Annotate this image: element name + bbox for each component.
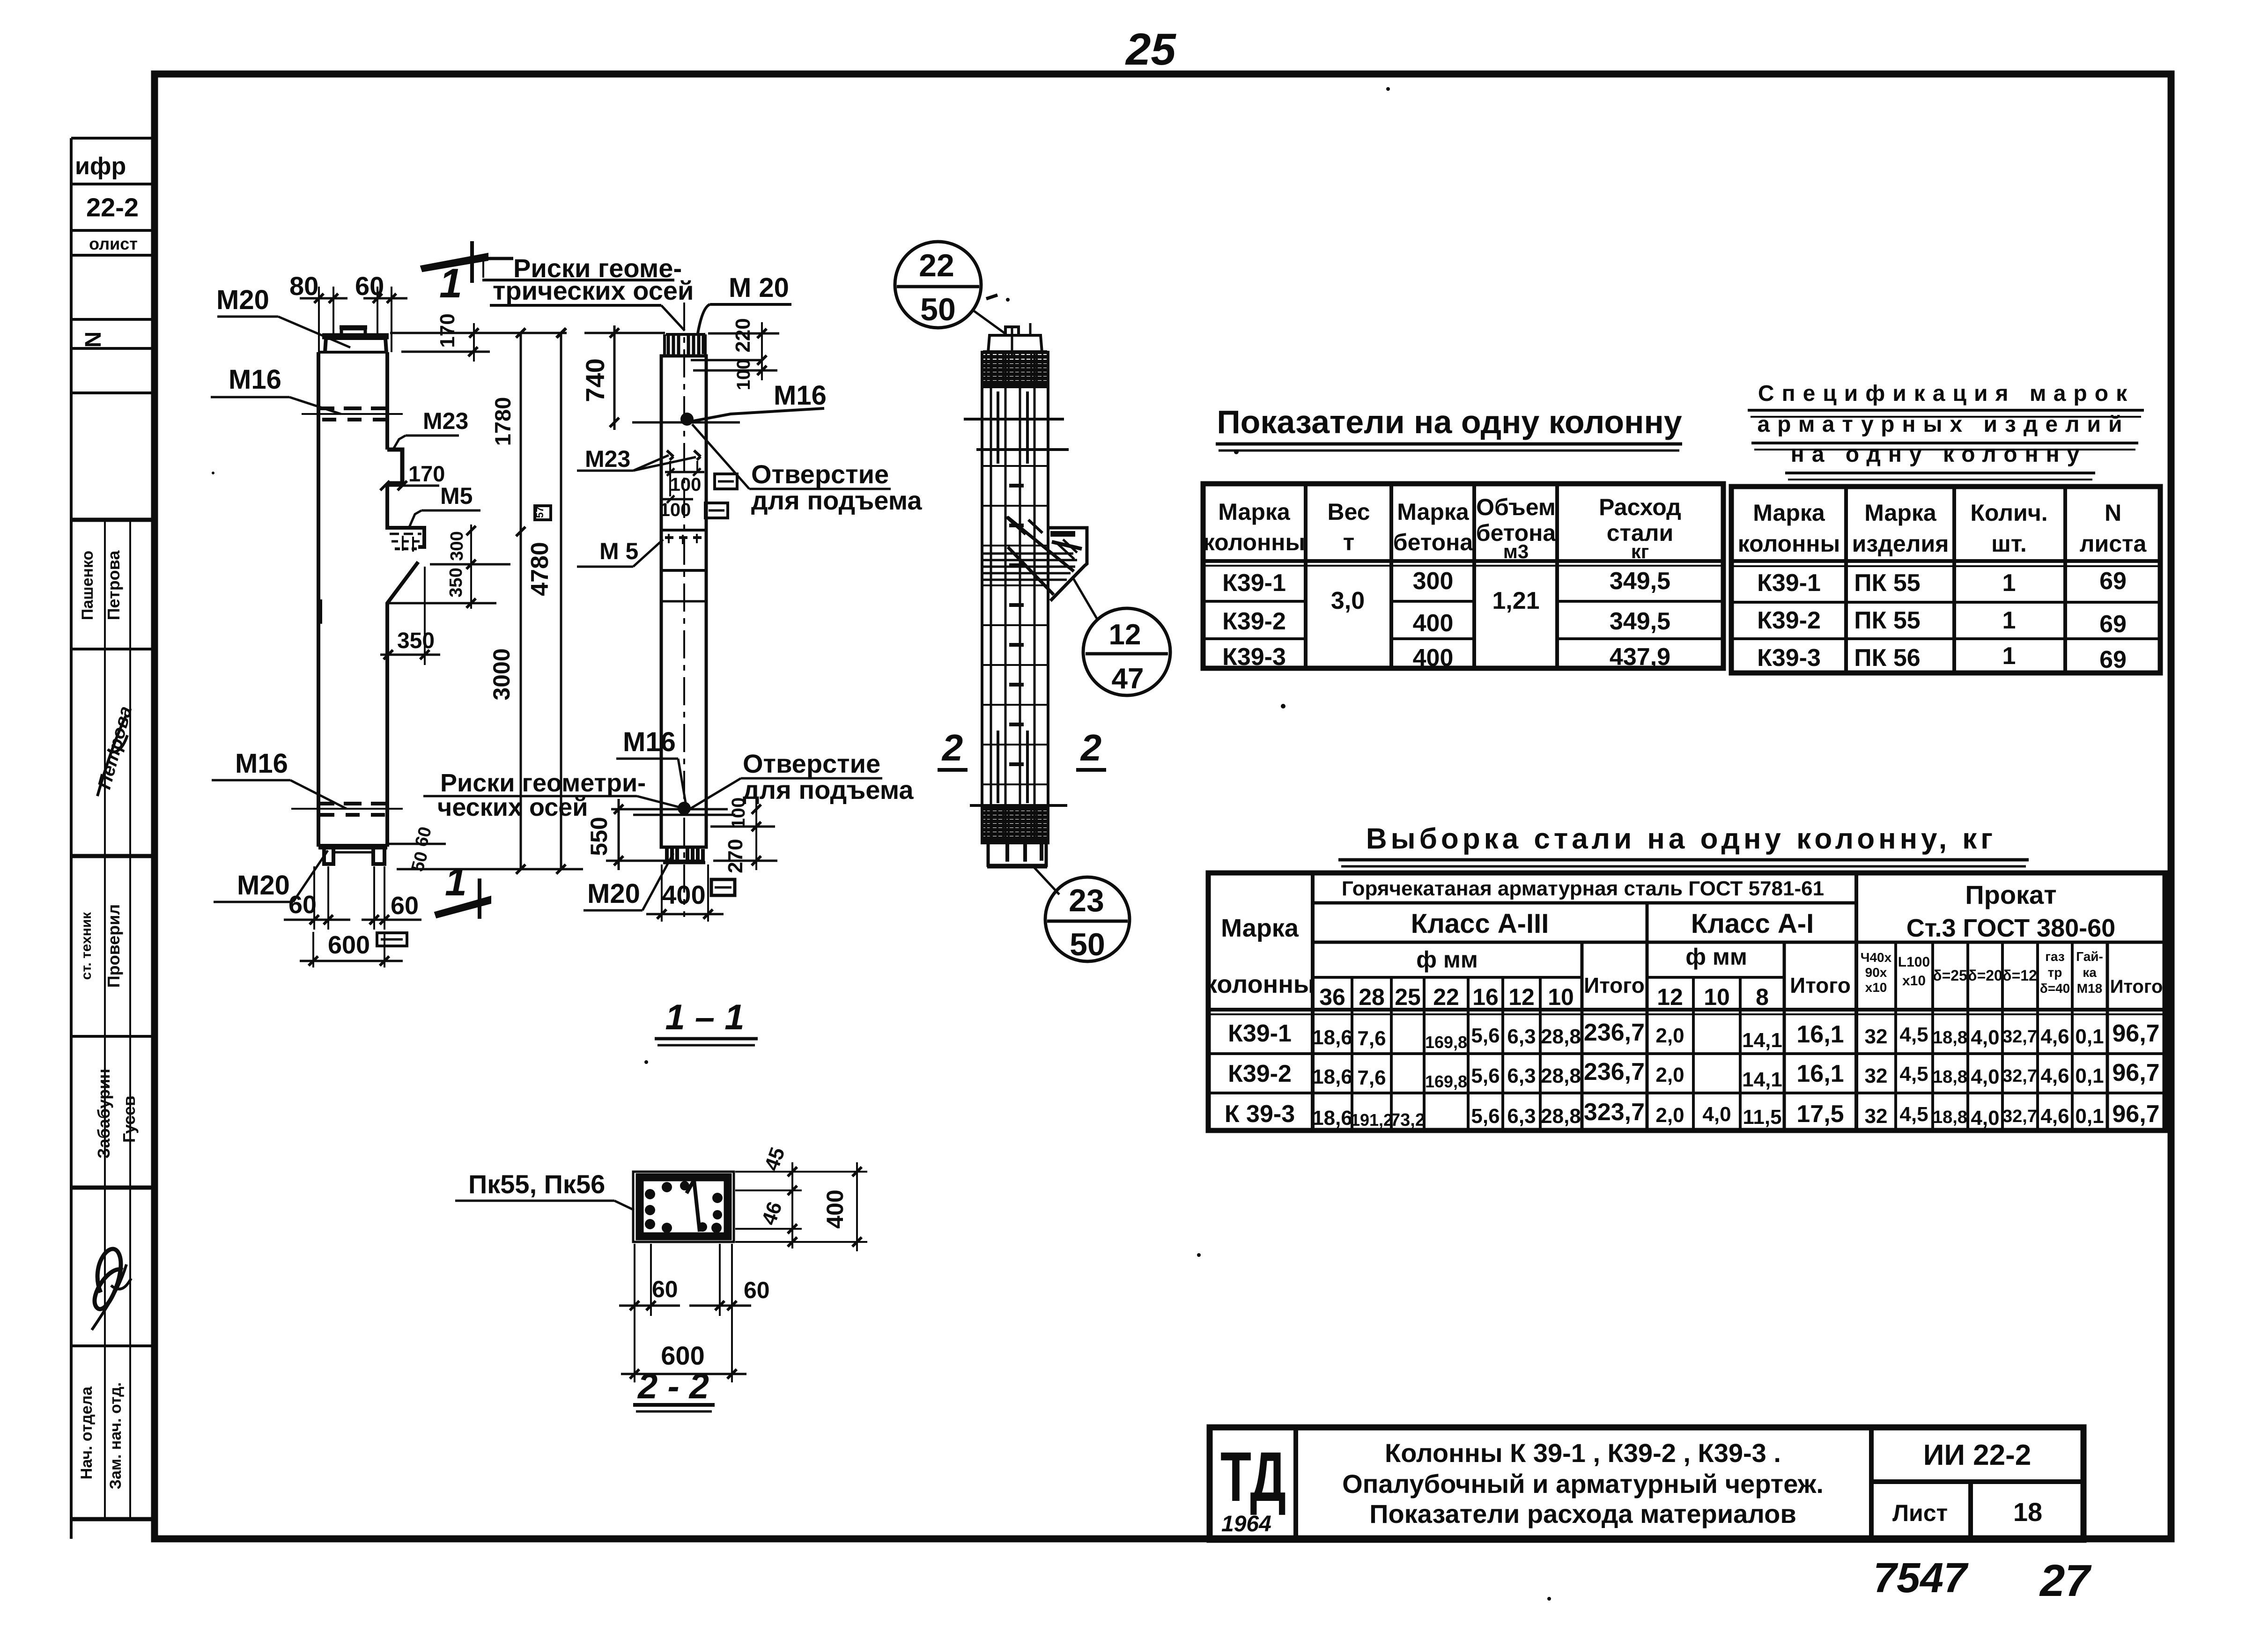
column body (661, 334, 706, 847)
axis dash marks upper (riski) (302, 408, 403, 420)
svg-text:4,6: 4,6 (2040, 1105, 2069, 1128)
svg-text:400: 400 (1413, 610, 1454, 637)
svg-text:14,1: 14,1 (1742, 1029, 1782, 1052)
svg-text:300: 300 (447, 531, 467, 561)
dim 170 at M23 tab (380, 481, 439, 490)
svg-text:К39-3: К39-3 (1222, 643, 1286, 671)
svg-text:69: 69 (2099, 611, 2127, 638)
svg-text:ПК 56: ПК 56 (1854, 644, 1920, 672)
label M5 view1 (408, 483, 480, 529)
svg-text:0,1: 0,1 (2075, 1064, 2104, 1087)
svg-text:349,5: 349,5 (1610, 568, 1670, 595)
svg-text:236,7: 236,7 (1584, 1058, 1645, 1086)
svg-text:δ=12: δ=12 (2002, 967, 2037, 984)
svg-text:100: 100 (660, 500, 691, 520)
rebar dots in section (645, 1181, 723, 1233)
label M23 view1 (392, 408, 468, 450)
svg-text:18,6: 18,6 (1312, 1026, 1352, 1049)
svg-text:27: 27 (2039, 1556, 2092, 1606)
svg-text:60: 60 (288, 891, 317, 919)
svg-text:349,5: 349,5 (1610, 608, 1670, 635)
lifting hole bottom (633, 802, 735, 815)
svg-text:Гусев: Гусев (119, 1096, 139, 1143)
svg-text:0,1: 0,1 (2075, 1025, 2104, 1048)
svg-text:М18: М18 (2077, 981, 2102, 996)
svg-text:δ=25: δ=25 (1933, 967, 1967, 984)
svg-text:2 - 2: 2 - 2 (637, 1366, 709, 1406)
svg-text:32: 32 (1865, 1025, 1888, 1048)
svg-text:ф мм: ф мм (1685, 944, 1747, 970)
svg-text:Лист: Лист (1892, 1500, 1948, 1526)
label Pk55 Pk56 (455, 1169, 634, 1210)
label M16 top view2 (688, 380, 827, 422)
svg-text:23: 23 (1069, 883, 1104, 918)
svg-text:изделия: изделия (1852, 531, 1949, 557)
svg-text:4,0: 4,0 (1971, 1107, 1999, 1130)
svg-text:170: 170 (436, 313, 459, 347)
svg-text:шт.: шт. (1991, 531, 2027, 557)
svg-text:18,8: 18,8 (1933, 1108, 1967, 1127)
svg-text:4780: 4780 (526, 542, 554, 596)
text riski geom bottom (423, 769, 680, 821)
svg-text:600: 600 (661, 1341, 704, 1370)
label M16 bottom view2 (616, 727, 686, 803)
svg-text:60: 60 (355, 271, 384, 301)
svg-text:550: 550 (586, 817, 612, 856)
svg-text:16: 16 (1472, 984, 1499, 1010)
svg-text:Опалубочный и арматурный черте: Опалубочный и арматурный чертеж. (1342, 1469, 1824, 1499)
svg-text:4,6: 4,6 (2040, 1064, 2069, 1087)
svg-text:28,8: 28,8 (1541, 1025, 1581, 1048)
svg-text:28: 28 (1359, 984, 1385, 1010)
svg-text:м3: м3 (1503, 540, 1529, 562)
label M20 bottom view2 (584, 853, 673, 910)
label 2-2 (633, 1366, 715, 1411)
handwritten numbers bottom (1873, 1555, 2092, 1606)
TD logo (1220, 1438, 1286, 1536)
svg-text:Колич.: Колич. (1970, 500, 2047, 526)
bottom bolt tabs (663, 847, 705, 863)
svg-text:2,0: 2,0 (1655, 1024, 1684, 1047)
svg-text:32: 32 (1865, 1105, 1888, 1128)
svg-text:50: 50 (1070, 927, 1105, 962)
svg-text:арматурных изделий: арматурных изделий (1757, 412, 2129, 437)
circle 12/47 (1072, 577, 1170, 695)
svg-text:10: 10 (1548, 984, 1574, 1010)
svg-text:М16: М16 (235, 748, 288, 779)
svg-text:7,6: 7,6 (1357, 1027, 1386, 1050)
svg-text:5,6: 5,6 (1471, 1105, 1500, 1128)
segment lines on body (661, 530, 706, 601)
svg-text:32,7: 32,7 (2002, 1027, 2037, 1047)
svg-text:236,7: 236,7 (1584, 1019, 1645, 1046)
svg-text:18,6: 18,6 (1312, 1107, 1352, 1130)
label M5 view2 (577, 538, 663, 567)
svg-text:К39-1: К39-1 (1228, 1020, 1292, 1047)
dims 220 / 100 top right (691, 322, 779, 380)
svg-text:Отверстие: Отверстие (751, 459, 889, 489)
svg-text:ПК 55: ПК 55 (1854, 569, 1920, 597)
small rotated 60 / 50 labels near bottom rails (388, 844, 583, 869)
svg-text:Пашенко: Пашенко (79, 551, 96, 620)
svg-text:4,0: 4,0 (1971, 1065, 1999, 1088)
svg-text:т: т (1343, 529, 1355, 555)
svg-text:х10: х10 (1865, 980, 1887, 995)
circle 22/50 (895, 242, 1005, 333)
svg-text:90х: 90х (1865, 965, 1887, 980)
svg-text:колонны: колонны (1204, 970, 1315, 998)
svg-text:28,8: 28,8 (1541, 1105, 1581, 1128)
svg-text:К39-2: К39-2 (1757, 607, 1821, 634)
svg-text:К 39-3: К 39-3 (1225, 1100, 1295, 1128)
svg-text:60: 60 (652, 1276, 678, 1302)
svg-text:1: 1 (445, 860, 467, 904)
svg-text:25: 25 (1125, 24, 1176, 74)
svg-text:8: 8 (1756, 984, 1769, 1010)
dim 80 / 60 above cap (300, 287, 407, 352)
label M16 top (211, 364, 341, 414)
svg-text:М 5: М 5 (599, 538, 638, 564)
svg-text:Спецификация марок: Спецификация марок (1758, 381, 2135, 406)
svg-text:5,6: 5,6 (1471, 1024, 1500, 1047)
svg-text:32: 32 (1865, 1064, 1888, 1087)
svg-text:ст. техник: ст. техник (79, 912, 94, 980)
svg-text:3,0: 3,0 (1331, 587, 1365, 614)
svg-text:Выборка стали на одну колонну,: Выборка стали на одну колонну, кг (1366, 823, 1996, 855)
svg-text:32,7: 32,7 (2002, 1107, 2037, 1126)
svg-text:350: 350 (397, 628, 435, 653)
svg-text:К39-3: К39-3 (1757, 644, 1821, 672)
svg-text:Итого: Итого (2110, 976, 2163, 997)
svg-text:Марка: Марка (1864, 500, 1937, 526)
small black mark left edge (317, 599, 322, 624)
dim 400 bottom (646, 864, 724, 922)
svg-text:25: 25 (1395, 984, 1421, 1010)
svg-text:22: 22 (1433, 984, 1459, 1010)
svg-text:73,2: 73,2 (1390, 1110, 1425, 1130)
svg-text:К39-1: К39-1 (1222, 569, 1286, 597)
svg-text:6,3: 6,3 (1507, 1064, 1536, 1087)
svg-text:4,5: 4,5 (1899, 1103, 1928, 1126)
svg-text:11,5: 11,5 (1743, 1106, 1781, 1129)
cage dense bottom band (983, 808, 1047, 842)
svg-text:169,8: 169,8 (1425, 1072, 1467, 1091)
svg-text:1 – 1: 1 – 1 (665, 997, 744, 1037)
svg-text:3000: 3000 (488, 648, 515, 700)
svg-text:7,6: 7,6 (1357, 1066, 1386, 1089)
svg-text:ф мм: ф мм (1416, 946, 1478, 973)
svg-text:28,8: 28,8 (1541, 1064, 1581, 1087)
svg-text:1,21: 1,21 (1492, 587, 1539, 614)
svg-text:10: 10 (1704, 984, 1730, 1010)
extended tie lines (964, 419, 1069, 805)
long dim line 1780/3000 (516, 328, 525, 874)
dim 740 (584, 325, 665, 430)
M23 tick marks (661, 450, 704, 503)
svg-text:М20: М20 (587, 879, 640, 909)
svg-text:К39-2: К39-2 (1228, 1060, 1292, 1087)
svg-text:96,7: 96,7 (2112, 1020, 2159, 1047)
dim 550 bottom left (606, 799, 728, 870)
svg-text:300: 300 (1413, 568, 1454, 595)
left strip cell texts (75, 153, 139, 1489)
svg-text:4,5: 4,5 (1899, 1023, 1928, 1046)
M23 boss tab on right edge (387, 450, 402, 483)
svg-text:400: 400 (822, 1189, 848, 1228)
label M20 top (216, 285, 350, 347)
svg-text:Ч40х: Ч40х (1861, 950, 1892, 965)
svg-text:22-2: 22-2 (86, 192, 139, 222)
page number 25 (1125, 24, 1176, 74)
svg-text:60: 60 (391, 892, 419, 920)
svg-text:колонны: колонны (1203, 529, 1305, 555)
svg-text:Забабурин: Забабурин (94, 1069, 113, 1159)
svg-text:14,1: 14,1 (1742, 1068, 1782, 1091)
svg-text:100: 100 (733, 359, 754, 391)
svg-text:4,6: 4,6 (2040, 1025, 2069, 1048)
svg-text:17,5: 17,5 (1796, 1100, 1844, 1128)
label M16 bottom (212, 748, 347, 809)
circle 23/50 (1034, 867, 1130, 961)
label otverstie top (692, 424, 922, 515)
svg-text:Итого: Итого (1790, 973, 1851, 997)
svg-text:К39-1: К39-1 (1757, 569, 1821, 597)
svg-text:437,9: 437,9 (1610, 643, 1670, 671)
svg-text:Отверстие: Отверстие (743, 749, 880, 778)
svg-text:листа: листа (2080, 531, 2147, 557)
svg-text:М16: М16 (623, 727, 676, 757)
corbel reinforcement (981, 517, 1087, 601)
svg-text:ческих осей: ческих осей (437, 793, 588, 821)
svg-text:100: 100 (670, 474, 702, 495)
svg-text:Петрова: Петрова (104, 550, 123, 620)
svg-text:Пк55, Пк56: Пк55, Пк56 (468, 1169, 605, 1199)
bottom cap and feet (318, 847, 387, 864)
svg-text:5,6: 5,6 (1471, 1064, 1500, 1087)
svg-text:олист: олист (89, 234, 138, 253)
svg-text:х10: х10 (1902, 973, 1926, 989)
svg-text:220: 220 (731, 318, 754, 352)
svg-text:6,3: 6,3 (1507, 1105, 1536, 1128)
svg-text:ка: ка (2083, 965, 2097, 980)
svg-text:16,1: 16,1 (1796, 1060, 1844, 1087)
svg-text:18,6: 18,6 (1312, 1065, 1352, 1088)
svg-text:колонны: колонны (1738, 531, 1840, 557)
section mark 1 (top) (421, 241, 513, 283)
text riski geom top (482, 253, 694, 331)
svg-text:М 20: М 20 (729, 273, 789, 303)
column axis (683, 303, 685, 917)
svg-text:22: 22 (919, 248, 954, 283)
label M20 top view2 (698, 273, 791, 333)
svg-text:350: 350 (446, 568, 466, 597)
svg-text:кг: кг (1631, 540, 1649, 562)
drawing frame (155, 74, 2171, 1539)
svg-text:Проверил: Проверил (104, 904, 123, 988)
svg-text:Класс А-I: Класс А-I (1691, 908, 1814, 939)
svg-text:М23: М23 (423, 408, 468, 434)
svg-text:18,8: 18,8 (1933, 1067, 1967, 1087)
svg-text:ифр: ифр (75, 153, 126, 180)
section dims right 45/45/400 (735, 1162, 867, 1251)
svg-text:32,7: 32,7 (2002, 1066, 2037, 1086)
svg-text:1964: 1964 (1221, 1512, 1271, 1536)
dim 350 below corbel (380, 567, 440, 716)
svg-text:Марка: Марка (1397, 499, 1470, 525)
svg-text:М20: М20 (216, 285, 269, 315)
svg-text:Риски геометри-: Риски геометри- (440, 769, 646, 797)
cage dense top band (983, 351, 1047, 388)
svg-text:2: 2 (941, 727, 963, 768)
dims 300/350 at corbel (388, 524, 510, 609)
svg-text:1: 1 (2002, 607, 2016, 634)
svg-text:16,1: 16,1 (1796, 1021, 1844, 1048)
title text (1342, 1438, 1824, 1529)
svg-text:Итого: Итого (1584, 973, 1645, 997)
column body outline (318, 352, 424, 847)
svg-text:L100: L100 (1898, 954, 1930, 970)
svg-text:δ=20: δ=20 (1968, 967, 2002, 984)
svg-text:96,7: 96,7 (2112, 1100, 2159, 1128)
svg-text:2,0: 2,0 (1655, 1104, 1684, 1127)
svg-text:270: 270 (724, 839, 747, 873)
dims 100 / 270 bottom right (710, 799, 777, 870)
axis dash marks lower (291, 804, 403, 815)
M5 dashed marks in corbel notch (390, 534, 421, 552)
svg-text:М16: М16 (229, 364, 281, 395)
svg-text:57: 57 (534, 507, 546, 518)
svg-text:Зам. нач. отд.: Зам. нач. отд. (107, 1382, 125, 1490)
svg-text:2,0: 2,0 (1655, 1063, 1684, 1086)
signature scribble (92, 716, 131, 1330)
svg-text:7547: 7547 (1873, 1555, 1969, 1602)
section labels 2 2 (938, 727, 1106, 770)
svg-text:Показатели на одну колонну: Показатели на одну колонну (1217, 404, 1682, 440)
svg-text:Марка: Марка (1218, 499, 1291, 525)
dim 170 top right rails (390, 323, 567, 362)
svg-text:ТД: ТД (1220, 1438, 1286, 1516)
svg-text:50: 50 (920, 292, 956, 327)
svg-text:на одну колонну: на одну колонну (1791, 442, 2087, 467)
lifting hole top (632, 413, 740, 426)
svg-text:Расход: Расход (1599, 494, 1681, 520)
svg-text:400: 400 (1413, 644, 1454, 672)
label M23 view2 (577, 446, 696, 472)
svg-text:Горячекатаная арматурная сталь: Горячекатаная арматурная сталь ГОСТ 5781… (1342, 877, 1824, 900)
svg-text:δ=40: δ=40 (2040, 981, 2070, 996)
svg-text:М23: М23 (585, 446, 630, 472)
svg-text:1: 1 (439, 260, 462, 306)
svg-text:12: 12 (1508, 984, 1535, 1010)
svg-text:К39-2: К39-2 (1222, 608, 1286, 635)
svg-text:96,7: 96,7 (2112, 1059, 2159, 1086)
svg-text:740: 740 (580, 358, 610, 402)
svg-text:323,7: 323,7 (1584, 1099, 1645, 1126)
svg-text:N: N (81, 332, 106, 348)
svg-text:4,0: 4,0 (1702, 1103, 1731, 1126)
svg-text:М20: М20 (237, 870, 290, 901)
stirrups (983, 466, 1047, 784)
svg-text:Прокат: Прокат (1965, 880, 2056, 909)
svg-text:Ст.3 ГОСТ 380-60: Ст.3 ГОСТ 380-60 (1906, 914, 2115, 942)
bottom dims of view 1 (284, 866, 421, 967)
left margin strip grid (71, 138, 155, 1539)
svg-text:170: 170 (408, 461, 445, 486)
svg-text:тр: тр (2048, 965, 2062, 980)
svg-text:191,2: 191,2 (1351, 1110, 1393, 1130)
svg-text:0,1: 0,1 (2075, 1105, 2104, 1128)
svg-text:бетона: бетона (1393, 529, 1474, 555)
svg-text:N: N (2105, 500, 2121, 526)
svg-text:18: 18 (2013, 1497, 2042, 1527)
svg-text:600: 600 (328, 931, 370, 959)
svg-text:Нач. отдела: Нач. отдела (78, 1386, 96, 1479)
code and sheet (1892, 1439, 2042, 1527)
svg-text:4,5: 4,5 (1899, 1063, 1928, 1086)
svg-text:36: 36 (1319, 984, 1345, 1010)
svg-text:400: 400 (662, 880, 705, 909)
svg-text:60: 60 (744, 1277, 770, 1303)
svg-text:ПК 55: ПК 55 (1854, 607, 1920, 634)
cage outline (982, 327, 1048, 866)
svg-text:Марка: Марка (1753, 500, 1825, 526)
svg-text:1780: 1780 (490, 397, 515, 446)
section dims bottom 60/60/600 (619, 1244, 751, 1382)
stray specks (212, 87, 1551, 1601)
svg-text:Объем: Объем (1476, 494, 1556, 520)
svg-text:Колонны К 39-1 , К39-2 , К39-3: Колонны К 39-1 , К39-2 , К39-3 . (1385, 1438, 1781, 1468)
svg-text:Показатели расхода материалов: Показатели расхода материалов (1369, 1499, 1796, 1529)
long dim line 4780 (556, 328, 566, 874)
label otverstie bottom (689, 749, 914, 809)
cage longitudinal bars (991, 323, 1034, 843)
svg-text:Марка: Марка (1221, 914, 1299, 942)
svg-text:169,8: 169,8 (1425, 1033, 1467, 1052)
svg-text:Гай-: Гай- (2076, 949, 2103, 964)
svg-text:2: 2 (1080, 727, 1102, 768)
label M20 bottom (214, 850, 328, 902)
svg-text:80: 80 (289, 271, 318, 301)
svg-text:69: 69 (2099, 568, 2127, 595)
svg-text:ИИ 22-2: ИИ 22-2 (1923, 1439, 2031, 1471)
svg-text:12: 12 (1657, 984, 1683, 1010)
svg-text:газ: газ (2045, 949, 2065, 964)
svg-text:М5: М5 (440, 483, 473, 509)
svg-text:69: 69 (2099, 646, 2127, 673)
top cap (322, 327, 389, 352)
svg-text:6,3: 6,3 (1507, 1025, 1536, 1048)
svg-text:М16: М16 (774, 380, 827, 411)
svg-text:1: 1 (2002, 642, 2016, 670)
svg-text:1: 1 (2002, 569, 2016, 597)
svg-text:47: 47 (1112, 663, 1144, 695)
svg-text:4,0: 4,0 (1971, 1026, 1999, 1049)
svg-text:Класс А-III: Класс А-III (1411, 908, 1549, 939)
svg-text:18,8: 18,8 (1933, 1028, 1967, 1048)
svg-text:12: 12 (1109, 619, 1141, 651)
section mark 1 (bottom) (435, 879, 491, 919)
svg-text:Вес: Вес (1327, 499, 1370, 525)
